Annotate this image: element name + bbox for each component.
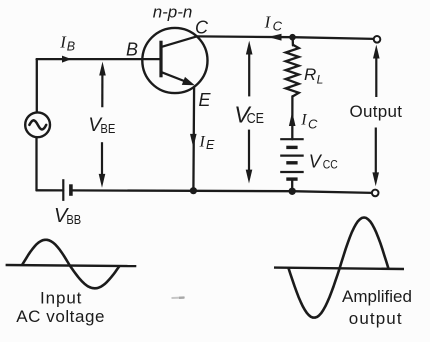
svg-text:Output: Output	[350, 102, 403, 121]
battery VBB long plate	[62, 179, 64, 201]
svg-text:CE: CE	[247, 110, 264, 127]
svg-text:B: B	[126, 39, 138, 59]
wire emitter vertical	[192, 87, 195, 191]
svg-text:n-p-n: n-p-n	[153, 2, 193, 21]
svg-text:BE: BE	[100, 121, 115, 136]
transistor Q1 circle	[142, 28, 207, 93]
wire VCC battery to bottom	[291, 179, 293, 191]
input waveform sine	[22, 240, 120, 288]
svg-text:output: output	[349, 309, 403, 328]
svg-text:B: B	[67, 40, 75, 54]
wire left vertical lower	[35, 137, 37, 190]
svg-text:Input: Input	[40, 288, 82, 307]
output span arrow (double)	[372, 45, 379, 187]
ac source sine symbol	[29, 120, 46, 129]
svg-text:C: C	[195, 17, 209, 37]
svg-text:I: I	[199, 133, 206, 150]
svg-text:BB: BB	[66, 213, 81, 227]
transistor Q1 base bar	[159, 41, 162, 78]
input waveform axis	[6, 265, 137, 266]
battery VCC plate long 2	[280, 155, 304, 157]
wire base (top-left horizontal)	[37, 58, 160, 60]
battery VCC plate short 2	[286, 161, 297, 164]
ac source V1 circle	[25, 112, 50, 137]
wire RL branch upper	[292, 37, 294, 45]
wire bottom (VBB battery to right terminal)	[71, 190, 372, 193]
stray mark	[172, 297, 186, 300]
battery VCC plate short 1	[286, 146, 297, 149]
wire bottom (left of VBB battery)	[37, 189, 64, 191]
wire collector (top horizontal)	[197, 36, 373, 39]
output terminal top	[374, 36, 381, 43]
battery VCC plate long 1	[280, 138, 304, 140]
junction dot emitter-bottom	[190, 187, 197, 194]
svg-text:I: I	[300, 111, 307, 128]
svg-text:I: I	[264, 12, 272, 31]
wire left vertical upper	[36, 59, 38, 112]
battery VCC plate short 3	[286, 177, 297, 180]
battery VBB short plate	[69, 184, 73, 196]
transistor Q1 collector stroke	[162, 36, 198, 47]
svg-text:R: R	[304, 65, 316, 84]
svg-text:CC: CC	[323, 158, 338, 172]
svg-text:E: E	[199, 90, 212, 110]
wire RL branch between resistor and battery	[291, 96, 293, 139]
amplified waveform sine	[288, 218, 388, 318]
output terminal bottom	[372, 190, 379, 197]
arrow IC (top, pointing left)	[268, 34, 282, 41]
junction dot VCC-bottom	[289, 188, 296, 195]
arrow IC (middle, pointing up)	[289, 112, 296, 126]
svg-text:V: V	[309, 152, 323, 172]
arrow IB on base wire	[62, 56, 71, 63]
svg-text:AC voltage: AC voltage	[16, 307, 105, 326]
battery VCC plate long 3	[280, 171, 304, 173]
svg-text:Amplified: Amplified	[342, 287, 412, 306]
amplified waveform axis	[274, 268, 404, 269]
resistor RL zigzag	[286, 45, 299, 97]
voltage arrow VCE (double)	[246, 41, 253, 184]
transistor Q1 emitter arrowhead	[182, 77, 195, 85]
arrow IE on emitter wire	[190, 134, 197, 148]
svg-text:C: C	[273, 18, 283, 33]
svg-text:E: E	[206, 138, 215, 152]
transistor Q1 emitter stroke	[162, 72, 188, 82]
svg-text:C: C	[308, 117, 318, 132]
svg-text:L: L	[317, 72, 324, 86]
junction dot collector-RL	[289, 34, 296, 41]
voltage arrow VBE (double)	[99, 62, 106, 188]
